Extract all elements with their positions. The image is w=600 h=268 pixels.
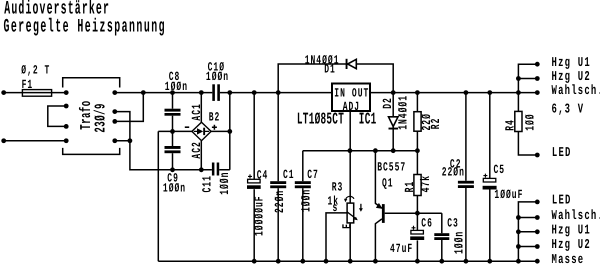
svg-text:C1: C1 — [283, 168, 295, 182]
svg-text:D1: D1 — [324, 63, 336, 77]
svg-text:C11: C11 — [200, 175, 214, 192]
svg-text:Hzg U1: Hzg U1 — [552, 223, 591, 238]
svg-text:C4: C4 — [257, 169, 269, 183]
svg-text:IN: IN — [334, 86, 346, 100]
svg-text:OUT: OUT — [352, 86, 369, 100]
svg-text:AC1: AC1 — [190, 103, 204, 120]
svg-text:22Øn: 22Øn — [442, 166, 465, 180]
svg-text:22Øn: 22Øn — [273, 190, 287, 213]
svg-text:1ØØn: 1ØØn — [300, 189, 314, 212]
svg-text:R3: R3 — [332, 180, 344, 194]
svg-text:C7: C7 — [307, 168, 319, 182]
svg-text:Masse: Masse — [552, 253, 585, 268]
svg-text:C3: C3 — [447, 216, 459, 230]
svg-text:Wahlsch.: Wahlsch. — [552, 84, 600, 99]
svg-text:6,3 V: 6,3 V — [552, 102, 585, 117]
svg-text:1ØØn: 1ØØn — [163, 181, 186, 195]
svg-text:D2: D2 — [381, 97, 395, 109]
svg-text:AC2: AC2 — [190, 141, 204, 158]
svg-text:1N4ØØ1: 1N4ØØ1 — [397, 95, 411, 130]
svg-text:Wahlsch.: Wahlsch. — [552, 209, 600, 224]
svg-text:1ØØØØuF: 1ØØØØuF — [253, 195, 267, 236]
svg-text:Hzg U1: Hzg U1 — [552, 56, 591, 71]
svg-text:IC1: IC1 — [359, 110, 377, 129]
svg-text:47uF: 47uF — [390, 242, 413, 256]
svg-text:R2: R2 — [429, 118, 443, 130]
svg-text:B2: B2 — [209, 110, 221, 124]
svg-text:R4: R4 — [504, 119, 518, 131]
svg-text:Ø,2 T: Ø,2 T — [21, 63, 50, 77]
svg-text:LT1Ø85CT: LT1Ø85CT — [297, 110, 344, 129]
svg-text:1ØØ: 1ØØ — [524, 113, 538, 130]
svg-text:E: E — [340, 223, 354, 229]
svg-text:s: s — [333, 201, 339, 215]
svg-text:C5: C5 — [494, 163, 506, 177]
svg-text:1ØØn: 1ØØn — [218, 172, 232, 195]
svg-text:Hzg U2: Hzg U2 — [552, 238, 591, 253]
svg-text:Q1: Q1 — [382, 177, 394, 191]
svg-text:Geregelte Heizspannung: Geregelte Heizspannung — [4, 15, 166, 37]
svg-text:LED: LED — [552, 194, 572, 209]
svg-text:23Ø/9: 23Ø/9 — [92, 103, 109, 133]
svg-text:ADJ: ADJ — [343, 100, 360, 114]
svg-text:1ØØn: 1ØØn — [165, 80, 188, 94]
svg-text:F1: F1 — [22, 78, 34, 92]
svg-text:1ØØn: 1ØØn — [206, 70, 229, 84]
svg-text:1ØØuF: 1ØØuF — [494, 188, 523, 202]
svg-text:47k: 47k — [419, 175, 433, 192]
svg-text:BC557: BC557 — [377, 161, 406, 175]
svg-text:LED: LED — [552, 146, 572, 161]
svg-text:C6: C6 — [421, 216, 433, 230]
svg-text:1ØØn: 1ØØn — [452, 231, 466, 254]
svg-text:R1: R1 — [403, 181, 417, 193]
